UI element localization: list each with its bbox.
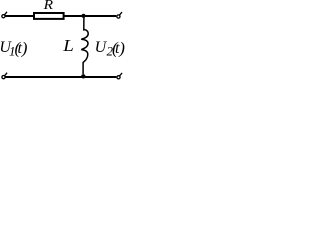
svg-text:R: R	[43, 0, 53, 13]
svg-text:): )	[118, 39, 125, 58]
svg-text:): )	[21, 39, 28, 58]
svg-text:L: L	[62, 36, 74, 55]
